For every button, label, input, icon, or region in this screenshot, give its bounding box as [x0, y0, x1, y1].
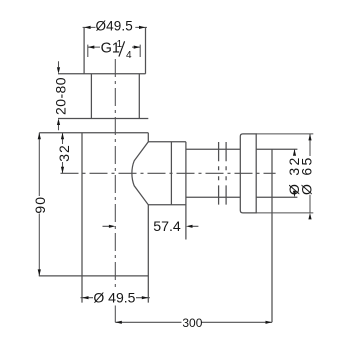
pipe break mark 1 [218, 142, 220, 205]
arrow 90 top (up) [38, 133, 41, 140]
arrow Ø49.5 top right [139, 26, 146, 29]
inlet tube [91, 74, 139, 119]
arrow Ø49.5 bottom right [142, 296, 149, 299]
arrow 57.4 left (points right) [109, 225, 116, 228]
arrowheads [38, 26, 312, 324]
dimension 20-80: lines [58, 61, 60, 130]
arrow 20-80 bottom (up) [57, 119, 60, 126]
arrow Ø65 top (up) [308, 134, 311, 141]
dimension 300: lines [115, 321, 272, 323]
inlet top cylinder [58, 27, 146, 73]
svg-text:57.4: 57.4 [153, 219, 181, 235]
arrow 300 left [115, 321, 122, 324]
extension lines Ø32/Ø65 [256, 134, 313, 213]
svg-text:Ø 49.5: Ø 49.5 [93, 290, 135, 306]
arrow 32 bottom (down) [61, 167, 64, 174]
arrow G11/4 left [88, 46, 95, 49]
pipe end / wall line [271, 149, 273, 322]
arrow Ø32 top (up) [293, 149, 296, 156]
svg-text:20-80: 20-80 [53, 77, 69, 115]
arrow G11/4 right [134, 46, 141, 49]
arrow 300 right [266, 321, 273, 324]
flange [39, 119, 148, 133]
arrow 90 bottom (down) [38, 269, 41, 276]
dimension Ø49.5 top: lines [83, 26, 147, 28]
arrow 32 top (up) [61, 133, 64, 140]
svg-text:32: 32 [56, 144, 72, 161]
svg-text:90: 90 [32, 196, 48, 214]
svg-text:Ø 65: Ø 65 [298, 155, 314, 195]
dimension 90: lines [38, 133, 40, 276]
label G1 1/4 [101, 39, 132, 61]
centerline horizontal [61, 172, 276, 174]
svg-text:Ø49.5: Ø49.5 [96, 18, 133, 33]
wall rosette [240, 134, 256, 213]
pipe break mark 2 [225, 142, 227, 205]
outlet nut [148, 142, 186, 240]
arrow Ø65 bottom (down) [308, 213, 311, 220]
arrow 57.4 right (points left) [186, 225, 193, 228]
arrow Ø32 bottom (down) [293, 191, 296, 198]
svg-text:4: 4 [126, 50, 132, 61]
trap body [39, 133, 149, 303]
svg-text:300: 300 [182, 316, 202, 330]
arrow Ø49.5 top left [84, 26, 91, 29]
dimension G1 1/4: lines [88, 45, 140, 57]
dimension Ø65: lines [309, 134, 311, 213]
arrow 20-80 top (down) [57, 67, 60, 74]
dimension Ø49.5 bottom: lines [81, 297, 150, 299]
dimension Ø32: lines [294, 149, 296, 155]
outlet pipe [186, 149, 298, 197]
dimension 32: lines [62, 133, 64, 174]
dimension 57.4: lines [103, 225, 199, 227]
centerline vertical [114, 59, 116, 322]
arrow Ø49.5 bottom left [82, 296, 89, 299]
